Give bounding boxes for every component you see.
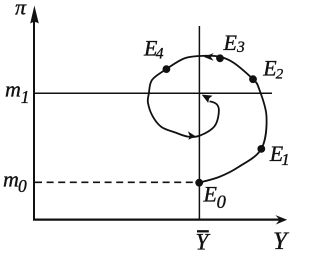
svg-text:1: 1	[281, 150, 290, 169]
svg-text:m: m	[5, 77, 21, 102]
m0 dashed line	[35, 181, 199, 183]
svg-text:m: m	[3, 167, 19, 192]
m1 horizontal line	[35, 92, 272, 94]
Ybar overline	[197, 230, 209, 232]
svg-text:3: 3	[236, 39, 245, 56]
svg-text:0: 0	[217, 193, 227, 213]
point E3	[216, 54, 224, 62]
svg-text:Y: Y	[196, 230, 211, 255]
point E0	[195, 179, 203, 187]
svg-text:0: 0	[18, 176, 27, 196]
point E4	[163, 65, 171, 73]
pi axis arrowhead	[30, 6, 39, 24]
Y axis (horizontal)	[33, 219, 281, 221]
pi axis (vertical)	[33, 18, 35, 220]
spiral trajectory	[148, 56, 267, 183]
arrowhead on top of outer loop (pointing left)	[204, 53, 214, 61]
Y axis arrowhead	[275, 215, 287, 224]
svg-text:π: π	[15, 0, 27, 20]
svg-text:E: E	[223, 30, 238, 55]
svg-text:2: 2	[276, 66, 284, 82]
svg-text:1: 1	[21, 87, 30, 107]
point E1	[257, 145, 265, 153]
Ybar vertical line	[198, 26, 200, 219]
svg-text:E: E	[203, 182, 218, 207]
arrowhead at spiral end (pointing left-up)	[202, 95, 213, 103]
svg-text:4: 4	[156, 45, 164, 62]
arrowhead on bottom of inner loop (pointing right)	[188, 131, 196, 139]
point E2	[249, 75, 257, 83]
